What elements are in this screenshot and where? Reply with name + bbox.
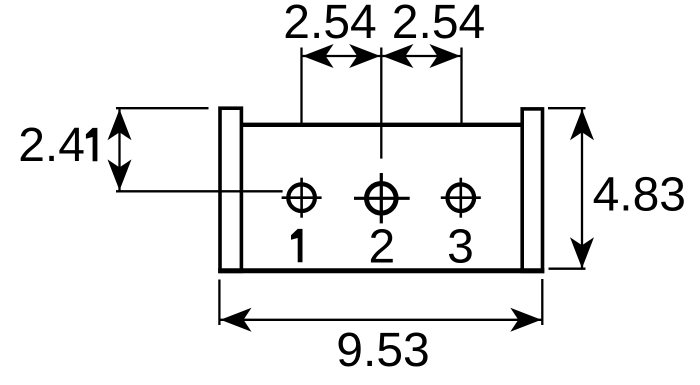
arrowhead left of 2.54 left segment <box>303 44 334 68</box>
4.83 dimension: top extension line <box>548 107 586 109</box>
pin pitch dimension: extension line pin 2 center <box>380 48 382 159</box>
right end tab <box>522 109 542 272</box>
arrowhead left of 9.53 <box>221 308 252 332</box>
pin 3 pad <box>441 178 481 218</box>
4.83 dimension: bottom extension line <box>549 268 586 270</box>
pin 2 pad <box>354 173 410 223</box>
svg-text:2.4: 2.4 <box>18 119 85 172</box>
svg-text:3: 3 <box>447 220 474 273</box>
svg-text:9.53: 9.53 <box>336 324 429 377</box>
9.53 dimension: right extension line <box>541 279 543 325</box>
2.41 dimension: bottom extension line <box>116 190 283 192</box>
arrowhead down of 4.83 <box>570 237 594 268</box>
arrowhead up of 2.41 <box>108 109 132 140</box>
pin 1 pad <box>282 178 322 218</box>
pin 1 number label <box>291 229 303 262</box>
arrowhead right of 2.54 right segment <box>429 44 460 68</box>
svg-text:2.54: 2.54 <box>283 0 376 49</box>
svg-text:4.83: 4.83 <box>593 169 686 222</box>
body outline <box>218 125 544 271</box>
arrowhead down of 2.41 <box>108 159 132 190</box>
2.41 dimension: top extension line <box>116 107 209 109</box>
pin pitch dimension: extension line pin 1 <box>300 48 302 124</box>
2.41 dimension line <box>118 109 120 190</box>
4.83 dimension line <box>581 109 583 269</box>
9.53 dimension line <box>220 319 542 321</box>
pin pitch dimension: extension line pin 3 <box>460 48 462 124</box>
arrowhead right of 2.54 left segment <box>349 44 380 68</box>
9.53 dimension: left extension line <box>218 280 220 326</box>
svg-text:2: 2 <box>368 220 395 273</box>
left end tab <box>220 108 241 271</box>
svg-text:2.54: 2.54 <box>392 0 485 49</box>
arrowhead left of 2.54 right segment <box>382 44 413 68</box>
arrowhead up of 4.83 <box>570 109 594 140</box>
arrowhead right of 9.53 <box>510 308 541 332</box>
pin pitch dimension line <box>302 55 462 57</box>
